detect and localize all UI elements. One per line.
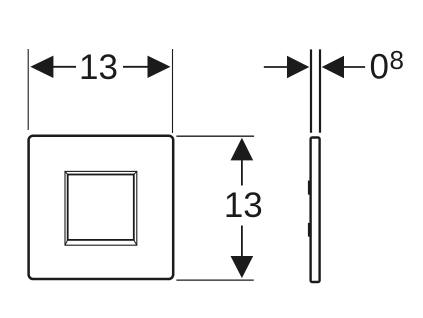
side view mounting clip lower <box>308 223 311 237</box>
button bevel corner bottom-left <box>65 240 68 245</box>
button bevel corner top-right <box>134 171 137 174</box>
front view plate outline <box>29 136 174 279</box>
button inner square <box>68 175 134 240</box>
thickness dimension line left segment <box>264 66 288 68</box>
width dimension line right segment <box>123 66 149 68</box>
height dimension arrow down <box>231 256 254 278</box>
width dimension arrow right <box>148 56 171 78</box>
button outer square <box>65 171 137 245</box>
extension line left face of thickness dimension <box>310 49 312 132</box>
thickness dimension line right segment <box>343 66 365 68</box>
svg-text:13: 13 <box>224 186 263 225</box>
extension line top of height dimension <box>176 135 254 137</box>
side view mounting clip upper <box>308 181 311 195</box>
button bevel corner top-left <box>65 171 68 174</box>
thickness dimension arrow pointing right <box>287 56 309 78</box>
height dimension line top segment <box>241 159 243 186</box>
svg-text:0: 0 <box>370 48 389 87</box>
svg-text:13: 13 <box>79 48 118 87</box>
extension line right of width dimension <box>172 49 174 133</box>
side view plate body <box>311 138 320 283</box>
width dimension arrow left <box>30 56 53 78</box>
svg-text:8: 8 <box>390 45 404 75</box>
extension line bottom of height dimension <box>176 279 253 281</box>
thickness dimension arrow pointing left <box>322 56 344 78</box>
height dimension arrow up <box>231 138 254 161</box>
button bevel corner bottom-right <box>134 240 137 245</box>
extension line right face of thickness dimension <box>319 49 321 132</box>
width dimension line left segment <box>53 66 77 68</box>
height dimension line bottom segment <box>241 226 243 258</box>
extension line left of width dimension <box>27 49 29 130</box>
